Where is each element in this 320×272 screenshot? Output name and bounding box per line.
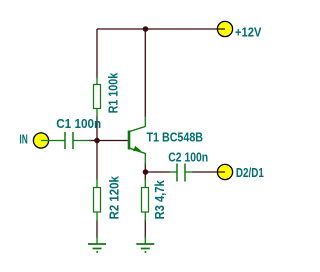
svg-text:+12V: +12V (235, 26, 262, 40)
svg-text:T1 BC548B: T1 BC548B (147, 131, 204, 145)
svg-text:R3 4,7k: R3 4,7k (153, 180, 167, 219)
svg-text:C2 100n: C2 100n (168, 150, 208, 164)
svg-text:D2/D1: D2/D1 (236, 166, 264, 180)
svg-text:IN: IN (19, 133, 27, 147)
svg-text:R1 100k: R1 100k (106, 73, 120, 114)
svg-text:C1 100n: C1 100n (56, 117, 101, 131)
svg-text:R2 120k: R2 120k (108, 176, 122, 219)
